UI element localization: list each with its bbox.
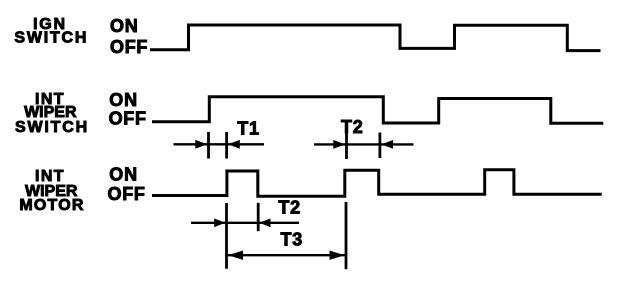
wire IGN SWITCH waveform: [150, 25, 601, 51]
label INT WIPER SWITCH: [15, 91, 89, 136]
svg-text:OFF: OFF: [110, 37, 148, 57]
label IGN SWITCH: [14, 16, 88, 47]
dimension T2 (upper): [314, 117, 414, 159]
wire INT WIPER SWITCH waveform: [152, 97, 603, 123]
svg-text:SWITCH: SWITCH: [15, 119, 89, 136]
svg-text:ON: ON: [109, 90, 138, 110]
dimension T3: [227, 229, 347, 260]
svg-text:OFF: OFF: [108, 184, 146, 204]
wire INT WIPER MOTOR waveform: [152, 170, 602, 197]
svg-text:T2: T2: [278, 198, 301, 218]
svg-text:T3: T3: [280, 229, 303, 249]
extension line at motor pulse 2 rising edge: [345, 202, 348, 269]
dimension T1: [174, 119, 265, 159]
extension line at motor pulse 1 falling edge: [257, 203, 260, 231]
svg-text:ON: ON: [109, 165, 138, 185]
extension line at motor pulse 1 rising edge: [225, 203, 228, 269]
svg-text:T2: T2: [341, 117, 364, 137]
label INT WIPER MOTOR: [19, 168, 84, 214]
dimension T2 (lower): [191, 198, 301, 228]
svg-text:ON: ON: [110, 16, 139, 36]
svg-text:MOTOR: MOTOR: [19, 197, 84, 214]
svg-text:T1: T1: [237, 119, 260, 139]
svg-text:OFF: OFF: [109, 109, 147, 129]
svg-text:SWITCH: SWITCH: [14, 30, 88, 47]
